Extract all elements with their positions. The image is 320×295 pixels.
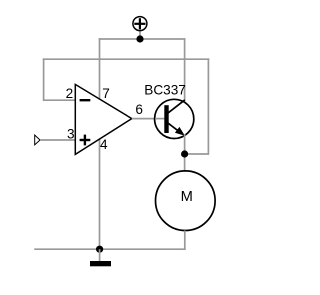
wire: feedback bottom to emitter node [185, 153, 209, 155]
wire: feedback top horizontal [43, 58, 210, 60]
wire: V+ supply stem [139, 30, 141, 39]
wire: feedback left vertical [43, 58, 45, 101]
svg-text:6: 6 [135, 102, 143, 117]
motor M1 [156, 171, 216, 231]
svg-text:2: 2 [66, 86, 74, 101]
power symbol V+ [133, 17, 147, 31]
wire: motor bottom lead [184, 231, 186, 251]
wire: bottom rail [34, 248, 185, 250]
wire: V+ rail [99, 38, 186, 40]
wire: input to pin 3 [40, 139, 75, 141]
wire: ground stem [99, 249, 101, 261]
svg-text:3: 3 [67, 127, 75, 142]
svg-text:4: 4 [100, 137, 108, 152]
svg-text:M: M [181, 189, 193, 205]
wire: collector drop from rail to transistor [184, 38, 186, 101]
wire: inverting input stub to pin 2 [44, 99, 76, 101]
wire: pin 4 drop to ground rail [99, 138, 101, 249]
wire: op-amp output to transistor base [132, 118, 165, 120]
junction dot emitter node [181, 150, 188, 157]
op-amp minus mark [80, 99, 91, 101]
op-amp plus mark [80, 135, 91, 146]
junction dot at V+ rail [136, 35, 143, 42]
op-amp U1 body [75, 84, 132, 154]
junction dot ground node [96, 246, 103, 253]
wire: feedback right vertical [207, 58, 209, 154]
svg-text:7: 7 [102, 86, 110, 101]
input port arrow [35, 135, 40, 145]
ground [90, 261, 111, 266]
wire: pin 7 drop from rail to op-amp top edge [99, 38, 101, 98]
svg-text:BC337: BC337 [144, 82, 186, 97]
wire: emitter down to motor [184, 134, 186, 171]
transistor Q1 BC337 [155, 99, 194, 138]
